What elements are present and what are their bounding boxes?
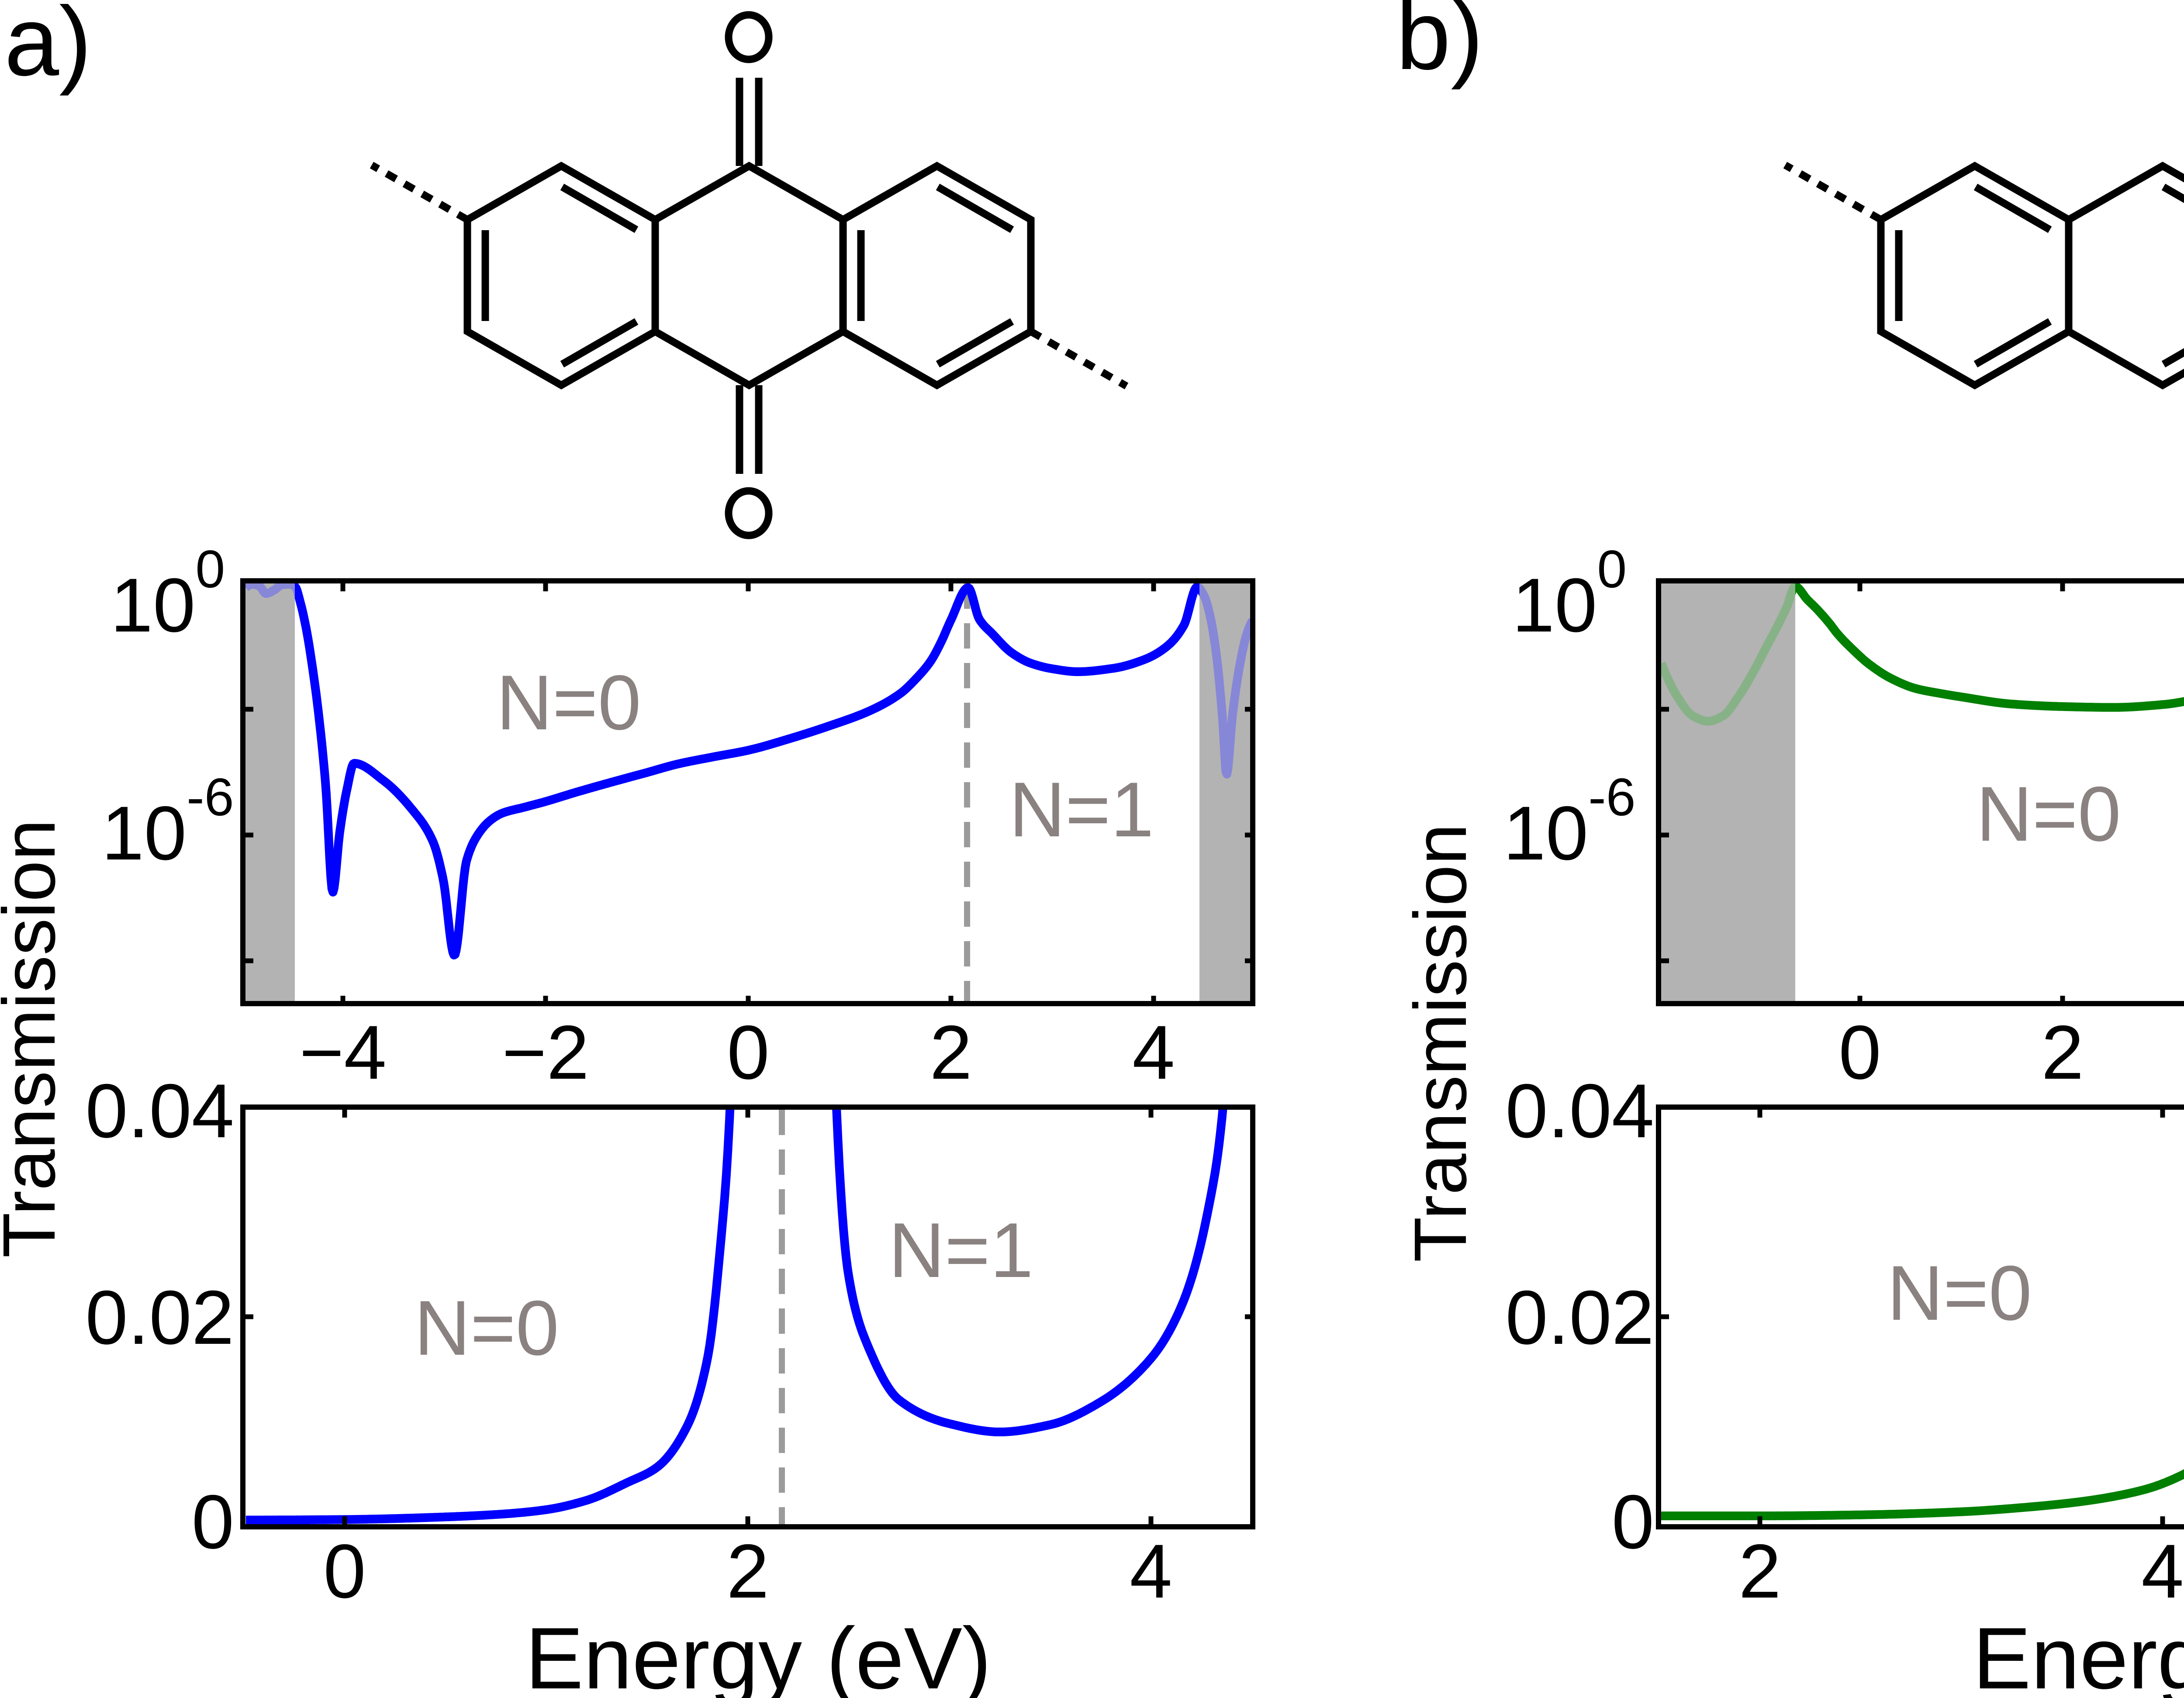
svg-text:2: 2 bbox=[2041, 1010, 2084, 1095]
svg-text:−2: −2 bbox=[502, 1010, 589, 1095]
plot a linear: y tick labels bbox=[85, 1069, 234, 1565]
plot b log: axis box bbox=[1659, 581, 2184, 1004]
svg-text:−4: −4 bbox=[299, 1010, 387, 1095]
svg-text:Energy (eV): Energy (eV) bbox=[525, 1610, 991, 1698]
svg-text:N=1: N=1 bbox=[1009, 766, 1154, 853]
svg-text:0.02: 0.02 bbox=[85, 1275, 234, 1360]
svg-text:a): a) bbox=[4, 0, 92, 96]
svg-text:Transmission: Transmission bbox=[0, 819, 71, 1258]
molecule a: anthraquinone skeleton bbox=[467, 166, 1031, 385]
plot a log: gray band left bbox=[245, 583, 295, 1004]
svg-text:0.04: 0.04 bbox=[85, 1069, 234, 1154]
molecule a oxygen atom top O bbox=[729, 15, 769, 59]
plot a log: gray band right bbox=[1199, 583, 1253, 1004]
plot a log: ticks bbox=[245, 583, 1253, 1004]
plot b linear: green curve left branch bbox=[1661, 592, 2184, 1518]
plot a log: blue transmission curve faded in bands bbox=[245, 584, 1253, 955]
molecule a electrode dashed bond right bbox=[1031, 331, 1127, 386]
plot a linear: ticks bbox=[245, 1110, 1253, 1524]
molecule a double bonds bbox=[485, 187, 1012, 364]
svg-text:N=1: N=1 bbox=[888, 1207, 1033, 1294]
plot a log: dashed EF line bbox=[964, 583, 970, 1004]
plot b linear: x tick labels bbox=[1738, 1529, 2184, 1614]
svg-text:0: 0 bbox=[1612, 1480, 1654, 1565]
plot b log: x tick labels bbox=[1838, 1010, 2184, 1095]
molecule a C=O double bond bottom bbox=[740, 385, 759, 474]
svg-text:0: 0 bbox=[727, 1010, 769, 1095]
svg-text:4: 4 bbox=[2141, 1529, 2184, 1614]
plot b log: green transmission curve faded in bands bbox=[1661, 587, 2184, 777]
svg-text:4: 4 bbox=[1132, 1010, 1175, 1095]
molecule b double bonds bbox=[1899, 187, 2184, 364]
plot a log: x tick labels bbox=[299, 1010, 1175, 1095]
svg-text:0.02: 0.02 bbox=[1505, 1275, 1654, 1360]
svg-text:0: 0 bbox=[323, 1529, 366, 1614]
svg-text:4: 4 bbox=[1130, 1529, 1172, 1614]
svg-text:Transmission: Transmission bbox=[1399, 824, 1482, 1262]
plot a linear: dashed EF line bbox=[779, 1110, 785, 1524]
molecule b: anthracene skeleton bbox=[1881, 166, 2184, 385]
svg-text:N=0: N=0 bbox=[414, 1284, 559, 1371]
plot b log: green transmission curve bbox=[1661, 587, 2184, 777]
svg-text:0: 0 bbox=[1838, 1010, 1881, 1095]
svg-text:0: 0 bbox=[192, 1480, 234, 1565]
molecule a electrode dashed bond left bbox=[372, 165, 467, 220]
svg-text:2: 2 bbox=[726, 1529, 769, 1614]
molecule b electrode dashed bond left bbox=[1785, 165, 1881, 220]
svg-text:2: 2 bbox=[930, 1010, 972, 1095]
svg-text:b): b) bbox=[1396, 0, 1483, 90]
plot a linear: axis box bbox=[243, 1107, 1253, 1527]
plot b log: gray band left bbox=[1661, 583, 1795, 1004]
plot a log: axis box bbox=[243, 581, 1253, 1004]
svg-text:100: 100 bbox=[1512, 539, 1627, 648]
molecule a C=O double bond top bbox=[740, 78, 759, 166]
svg-text:10-6: 10-6 bbox=[1503, 767, 1635, 876]
svg-text:N=0: N=0 bbox=[1976, 770, 2121, 857]
plot b linear: axis box bbox=[1659, 1107, 2184, 1527]
plot a linear: blue curve left branch bbox=[246, 695, 1236, 1520]
svg-text:2: 2 bbox=[1738, 1529, 1781, 1614]
plot b linear: ticks bbox=[1661, 1110, 2184, 1524]
svg-text:0.04: 0.04 bbox=[1505, 1069, 1654, 1154]
svg-text:100: 100 bbox=[111, 539, 225, 648]
molecule a oxygen atom bottom O bbox=[729, 491, 769, 535]
plot a log: blue transmission curve bbox=[245, 584, 1253, 955]
plot b linear: y tick labels bbox=[1505, 1069, 1654, 1565]
plot b log: ticks bbox=[1661, 583, 2184, 1004]
svg-text:Energy (eV): Energy (eV) bbox=[1973, 1610, 2184, 1698]
svg-text:N=0: N=0 bbox=[496, 659, 641, 746]
svg-text:N=0: N=0 bbox=[1887, 1249, 2032, 1336]
plot a linear: blue curve right branch bbox=[829, 695, 1236, 1432]
plot a linear: x tick labels bbox=[323, 1529, 1172, 1614]
svg-text:10-6: 10-6 bbox=[101, 767, 234, 876]
